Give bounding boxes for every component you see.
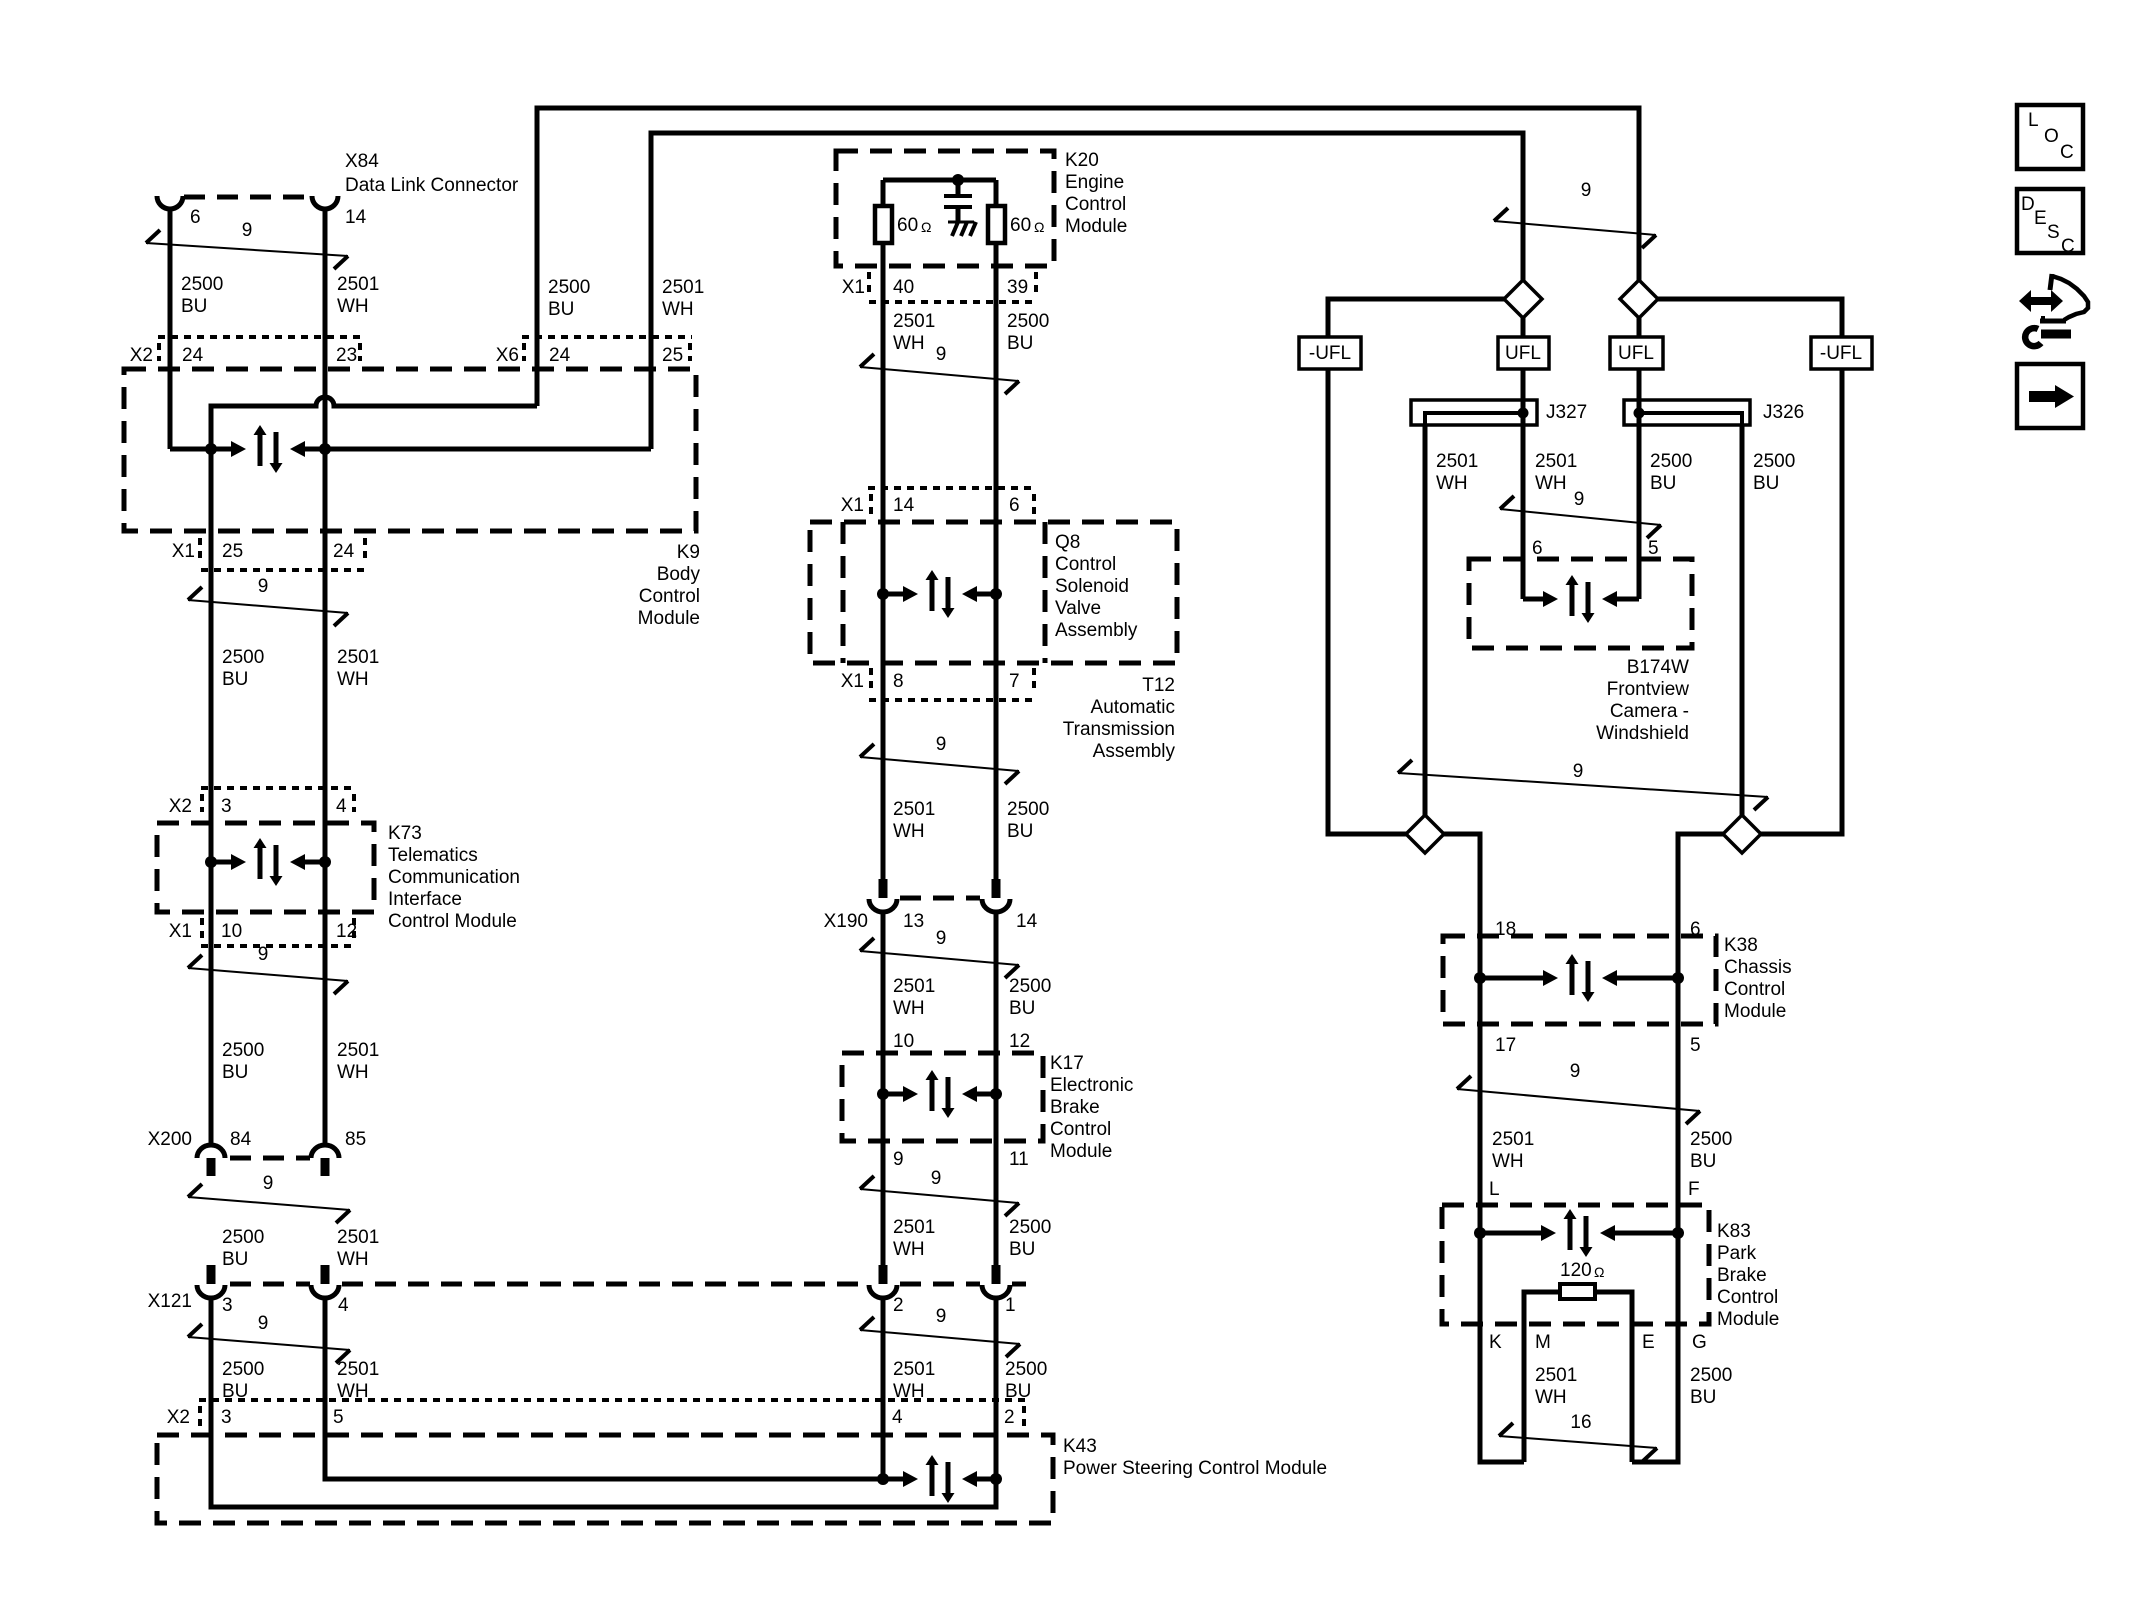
twisted pair 9 below X121 middle xyxy=(860,1317,874,1330)
svg-text:Body: Body xyxy=(657,564,701,585)
module Q8 inner partition right xyxy=(1043,522,1048,663)
terminal X121 pin 1 xyxy=(992,1265,1001,1284)
splice J326 xyxy=(1624,400,1750,425)
svg-text:WH: WH xyxy=(893,821,925,842)
svg-text:6: 6 xyxy=(1009,495,1020,516)
wire K43 2500 BU internal xyxy=(211,1298,996,1507)
wire 2500 BU K9 to K73 xyxy=(209,406,214,1147)
CAN node K43 xyxy=(883,1477,903,1482)
terminal X200 pin 84 xyxy=(197,1145,225,1158)
svg-text:2500: 2500 xyxy=(181,274,223,295)
connector X84 Data Link Connector xyxy=(184,195,311,200)
svg-text:X6: X6 xyxy=(496,345,519,366)
CAN node K73 xyxy=(211,860,231,865)
connector row X1 of K20 xyxy=(867,272,871,295)
svg-text:-UFL: -UFL xyxy=(1820,343,1862,364)
svg-text:Ω: Ω xyxy=(1034,219,1044,235)
svg-text:40: 40 xyxy=(893,277,914,298)
svg-text:K20: K20 xyxy=(1065,150,1099,171)
svg-text:2501: 2501 xyxy=(1535,1365,1577,1386)
terminal X121 pin 4 xyxy=(321,1265,330,1284)
svg-text:9: 9 xyxy=(1570,1061,1581,1082)
wire -UFL right down xyxy=(1761,369,1842,834)
svg-text:Electronic: Electronic xyxy=(1050,1075,1133,1096)
svg-text:UFL: UFL xyxy=(1618,343,1654,364)
twisted pair 9 below X121 left xyxy=(188,1324,202,1337)
svg-text:WH: WH xyxy=(893,998,925,1019)
svg-text:14: 14 xyxy=(893,495,915,516)
wire - 2501 WH top bus line xyxy=(651,133,1523,449)
svg-text:Valve: Valve xyxy=(1055,598,1101,619)
svg-text:BU: BU xyxy=(222,669,248,690)
svg-text:6: 6 xyxy=(1532,538,1543,559)
svg-text:9: 9 xyxy=(1581,180,1592,201)
svg-text:24: 24 xyxy=(333,541,355,562)
svg-text:14: 14 xyxy=(1016,911,1038,932)
svg-text:4: 4 xyxy=(336,796,347,817)
wire - 2500 BU top bus line xyxy=(537,108,1639,406)
svg-text:6: 6 xyxy=(190,207,201,228)
junction dot K9 2501 WH xyxy=(319,443,331,455)
svg-text:2500: 2500 xyxy=(1009,976,1051,997)
twisted pair 9 below K20 xyxy=(860,354,874,367)
terminal X121 pin 3 xyxy=(207,1265,216,1284)
svg-text:Control: Control xyxy=(1717,1287,1778,1308)
option box -UFL right xyxy=(1811,337,1872,369)
svg-text:X121: X121 xyxy=(148,1291,192,1312)
twisted pair 9 top right xyxy=(1494,208,1508,221)
svg-text:K38: K38 xyxy=(1724,935,1758,956)
svg-text:WH: WH xyxy=(662,299,694,320)
svg-text:2501: 2501 xyxy=(893,976,935,997)
wire 2501 WH UFL to camera xyxy=(1521,425,1526,599)
svg-text:BU: BU xyxy=(222,1062,248,1083)
splice diamond 2500 BU lower xyxy=(1723,815,1761,853)
svg-text:WH: WH xyxy=(1436,473,1468,494)
svg-text:X190: X190 xyxy=(824,911,868,932)
svg-text:X1: X1 xyxy=(172,541,195,562)
svg-text:G: G xyxy=(1692,1332,1707,1353)
svg-text:2501: 2501 xyxy=(337,1040,379,1061)
svg-text:Interface: Interface xyxy=(388,889,462,910)
svg-text:Power Steering Control Module: Power Steering Control Module xyxy=(1063,1458,1327,1479)
svg-text:2501: 2501 xyxy=(893,1359,935,1380)
svg-text:10: 10 xyxy=(221,921,242,942)
CAN node K38 xyxy=(1480,976,1543,981)
svg-text:9: 9 xyxy=(936,1306,947,1327)
twisted pair 9 below X200 xyxy=(188,1184,202,1197)
svg-text:J327: J327 xyxy=(1546,402,1587,423)
svg-text:WH: WH xyxy=(1535,473,1567,494)
svg-text:2500: 2500 xyxy=(222,1040,264,1061)
svg-text:8: 8 xyxy=(893,671,904,692)
svg-text:X1: X1 xyxy=(842,277,865,298)
connector X121 inline xyxy=(230,1282,310,1287)
svg-text:2501: 2501 xyxy=(893,799,935,820)
wire UFL right to J326 xyxy=(1637,369,1642,400)
wire 2500 BU X190 to K17 xyxy=(994,911,999,1267)
svg-text:3: 3 xyxy=(221,1407,232,1428)
wire 2500 BU from K20:39 xyxy=(994,243,999,880)
svg-text:Control: Control xyxy=(1065,194,1126,215)
svg-text:5: 5 xyxy=(1690,1035,1701,1056)
svg-text:BU: BU xyxy=(1007,333,1033,354)
svg-text:5: 5 xyxy=(1648,538,1659,559)
svg-text:120: 120 xyxy=(1560,1260,1592,1281)
svg-text:24: 24 xyxy=(549,345,571,366)
svg-text:-UFL: -UFL xyxy=(1309,343,1351,364)
wire to -UFL left xyxy=(1328,299,1504,337)
svg-text:BU: BU xyxy=(1009,1239,1035,1260)
svg-text:K73: K73 xyxy=(388,823,422,844)
svg-text:Data Link Connector: Data Link Connector xyxy=(345,175,519,196)
ground chassis symbol xyxy=(948,221,974,224)
svg-text:X1: X1 xyxy=(841,495,864,516)
wire K38:5 down to K83 xyxy=(1676,978,1681,1233)
resistor 60 ohm right xyxy=(988,206,1005,243)
svg-text:Control: Control xyxy=(1055,554,1116,575)
svg-text:2500: 2500 xyxy=(1009,1217,1051,1238)
svg-text:C: C xyxy=(2060,142,2074,163)
connector row X1 of T12 xyxy=(869,668,873,692)
wire K9 internal node feeds xyxy=(168,366,173,449)
svg-text:Engine: Engine xyxy=(1065,172,1124,193)
twisted pair 9 before lower splices xyxy=(1398,760,1412,773)
wire K20 internal top link xyxy=(883,178,996,183)
svg-text:2500: 2500 xyxy=(1690,1365,1732,1386)
wire camera pin 5 feed xyxy=(1617,597,1639,602)
svg-text:S: S xyxy=(2047,222,2060,243)
svg-text:WH: WH xyxy=(893,333,925,354)
twisted pair 9 below K17 xyxy=(860,1176,874,1189)
svg-text:9: 9 xyxy=(258,576,269,597)
wire 2501 WH from K20:40 xyxy=(881,243,886,880)
svg-text:WH: WH xyxy=(1535,1387,1567,1408)
svg-text:Brake: Brake xyxy=(1050,1097,1100,1118)
terminal cup X84 pin 14 xyxy=(312,196,338,209)
twisted pair 9 below K9 xyxy=(188,587,202,600)
svg-text:J326: J326 xyxy=(1763,402,1804,423)
wire to -UFL right xyxy=(1658,299,1842,337)
wire K9 internal 2500 BU upper link with hop over 2501 WH xyxy=(211,397,537,449)
terminal X121 pin 2 xyxy=(879,1265,888,1284)
wire diamond to K38:18 xyxy=(1444,834,1480,978)
svg-text:WH: WH xyxy=(337,296,369,317)
twisted pair 9 camera wires xyxy=(1500,496,1514,509)
svg-text:WH: WH xyxy=(893,1239,925,1260)
svg-text:Ω: Ω xyxy=(1594,1264,1604,1280)
legend box DESC xyxy=(2017,189,2083,253)
module B174W Frontview Camera Windshield xyxy=(1469,559,1692,648)
svg-text:9: 9 xyxy=(893,1149,904,1170)
svg-text:Ω: Ω xyxy=(921,219,931,235)
wire K38:17 down to K83 xyxy=(1478,978,1483,1233)
wire 2501 WH J327 branch down xyxy=(1423,425,1428,815)
svg-text:17: 17 xyxy=(1495,1035,1516,1056)
svg-text:C: C xyxy=(2061,236,2075,257)
svg-text:O: O xyxy=(2044,126,2059,147)
connector row X1 of K73 xyxy=(200,918,204,940)
module K17 Electronic Brake Control Module xyxy=(842,1053,1043,1141)
option box UFL right xyxy=(1610,337,1663,369)
svg-text:2501: 2501 xyxy=(1436,451,1478,472)
svg-text:X2: X2 xyxy=(130,345,153,366)
svg-text:Brake: Brake xyxy=(1717,1265,1767,1286)
svg-text:2501: 2501 xyxy=(893,311,935,332)
svg-text:K9: K9 xyxy=(677,542,700,563)
svg-text:BU: BU xyxy=(1007,821,1033,842)
wire UFL left to J327 xyxy=(1521,369,1526,400)
svg-text:Q8: Q8 xyxy=(1055,532,1080,553)
splice diamond 2501 WH lower xyxy=(1406,815,1444,853)
legend box arrow xyxy=(2017,364,2083,428)
svg-text:X1: X1 xyxy=(169,921,192,942)
svg-text:Solenoid: Solenoid xyxy=(1055,576,1129,597)
svg-text:BU: BU xyxy=(1650,473,1676,494)
svg-text:2501: 2501 xyxy=(1492,1129,1534,1150)
svg-text:4: 4 xyxy=(338,1295,349,1316)
svg-text:D: D xyxy=(2021,194,2035,215)
svg-text:60: 60 xyxy=(1010,215,1031,236)
svg-text:12: 12 xyxy=(336,921,357,942)
svg-text:X84: X84 xyxy=(345,151,379,172)
connector row X2 of K43 xyxy=(199,1398,1026,1402)
svg-text:BU: BU xyxy=(1009,998,1035,1019)
legend box LOC xyxy=(2017,105,2083,169)
svg-text:WH: WH xyxy=(337,1249,369,1270)
svg-text:9: 9 xyxy=(936,734,947,755)
svg-text:Camera -: Camera - xyxy=(1610,701,1689,722)
svg-text:BU: BU xyxy=(1690,1151,1716,1172)
svg-text:2: 2 xyxy=(1004,1407,1015,1428)
CAN node K17 xyxy=(883,1092,903,1097)
module T12 Automatic Transmission Assembly outer box xyxy=(810,522,1177,663)
wire camera pin 6 feed xyxy=(1523,597,1543,602)
svg-text:2500: 2500 xyxy=(1005,1359,1047,1380)
module K43 Power Steering Control Module xyxy=(157,1435,1053,1523)
connector X190 inline xyxy=(900,896,980,901)
svg-text:L: L xyxy=(1489,1179,1500,1200)
wire -UFL left down xyxy=(1328,369,1406,834)
svg-text:UFL: UFL xyxy=(1505,343,1541,364)
wires X121 to K43 left pair xyxy=(209,1298,214,1507)
svg-text:9: 9 xyxy=(936,344,947,365)
svg-text:Frontview: Frontview xyxy=(1607,679,1690,700)
svg-text:2500: 2500 xyxy=(222,1359,264,1380)
CAN node K83 xyxy=(1480,1231,1541,1236)
svg-text:Module: Module xyxy=(1065,216,1127,237)
svg-text:7: 7 xyxy=(1009,671,1020,692)
svg-text:9: 9 xyxy=(1573,761,1584,782)
svg-text:WH: WH xyxy=(337,1062,369,1083)
terminal X190 pin 14 xyxy=(992,879,1001,898)
svg-text:BU: BU xyxy=(222,1249,248,1270)
wire diamond to UFL left xyxy=(1521,318,1526,337)
CAN node K9 xyxy=(170,447,231,452)
svg-text:X2: X2 xyxy=(169,796,192,817)
wire K83 pin G loop xyxy=(1632,1233,1678,1462)
svg-text:BU: BU xyxy=(1690,1387,1716,1408)
svg-text:Control: Control xyxy=(1724,979,1785,1000)
svg-text:K17: K17 xyxy=(1050,1053,1084,1074)
svg-text:M: M xyxy=(1535,1332,1551,1353)
svg-text:16: 16 xyxy=(1570,1412,1591,1433)
svg-text:X1: X1 xyxy=(841,671,864,692)
svg-text:10: 10 xyxy=(893,1031,914,1052)
svg-text:2500: 2500 xyxy=(1753,451,1795,472)
svg-text:Transmission: Transmission xyxy=(1063,719,1175,740)
svg-text:Control: Control xyxy=(639,586,700,607)
svg-text:9: 9 xyxy=(936,928,947,949)
option box UFL left xyxy=(1498,337,1549,369)
svg-text:Assembly: Assembly xyxy=(1093,741,1176,762)
svg-text:9: 9 xyxy=(263,1173,274,1194)
svg-text:60: 60 xyxy=(897,215,918,236)
svg-text:9: 9 xyxy=(1574,489,1585,510)
module K38 Chassis Control Module xyxy=(1443,936,1716,1024)
connector row X2 of K73 xyxy=(201,786,356,790)
svg-text:L: L xyxy=(2028,110,2039,131)
svg-text:2501: 2501 xyxy=(337,647,379,668)
svg-text:23: 23 xyxy=(336,345,357,366)
module K83 Park Brake Control Module xyxy=(1442,1205,1709,1324)
wire X2:2 into K43 xyxy=(994,1298,999,1479)
terminal X200 pin 85 xyxy=(311,1145,339,1158)
module K20 Engine Control Module xyxy=(836,151,1054,266)
wire X2:4 into K43 xyxy=(881,1298,886,1479)
wire resistor left lead to pin M xyxy=(1524,1292,1560,1462)
wire 2500 BU J326 branch down xyxy=(1740,425,1745,815)
svg-text:2501: 2501 xyxy=(337,1359,379,1380)
connector X200 inline xyxy=(230,1156,310,1161)
svg-text:Module: Module xyxy=(1724,1001,1786,1022)
svg-text:9: 9 xyxy=(931,1168,942,1189)
resistor 60 ohm left xyxy=(875,206,892,243)
svg-text:2500: 2500 xyxy=(1007,799,1049,820)
svg-text:2501: 2501 xyxy=(893,1217,935,1238)
connector row X1 of K9 xyxy=(198,538,202,561)
svg-text:3: 3 xyxy=(221,796,232,817)
svg-text:5: 5 xyxy=(333,1407,344,1428)
svg-text:Assembly: Assembly xyxy=(1055,620,1138,641)
connector row X1 of Q8 xyxy=(868,486,1037,490)
splice diamond 2500 BU top xyxy=(1620,280,1658,318)
wire resistor right lead to pin E xyxy=(1595,1292,1632,1462)
legend icon data link diagnostics xyxy=(2019,290,2063,312)
svg-text:4: 4 xyxy=(892,1407,903,1428)
svg-text:2500: 2500 xyxy=(1650,451,1692,472)
module K9 Body Control Module xyxy=(124,369,696,531)
svg-text:Chassis: Chassis xyxy=(1724,957,1792,978)
svg-text:84: 84 xyxy=(230,1129,252,1150)
svg-text:WH: WH xyxy=(337,669,369,690)
svg-text:Module: Module xyxy=(638,608,700,629)
svg-text:3: 3 xyxy=(222,1295,233,1316)
wire 2500 BU UFL to camera xyxy=(1637,425,1642,599)
svg-text:2500: 2500 xyxy=(222,647,264,668)
wire K43 2501 WH internal xyxy=(325,1298,883,1479)
svg-text:2500: 2500 xyxy=(1007,311,1049,332)
svg-text:Control: Control xyxy=(1050,1119,1111,1140)
svg-text:WH: WH xyxy=(337,1381,369,1402)
svg-text:WH: WH xyxy=(1492,1151,1524,1172)
connector row X6 of K9 xyxy=(522,335,692,339)
svg-text:Module: Module xyxy=(1050,1141,1112,1162)
svg-text:11: 11 xyxy=(1009,1149,1029,1170)
splice diamond 2501 WH top xyxy=(1504,280,1542,318)
svg-text:2501: 2501 xyxy=(337,274,379,295)
svg-text:Windshield: Windshield xyxy=(1596,723,1689,744)
connector row X2 of K9 xyxy=(158,335,362,339)
svg-text:Park: Park xyxy=(1717,1243,1757,1264)
svg-text:25: 25 xyxy=(662,345,683,366)
splice J327 xyxy=(1411,400,1537,425)
svg-text:Automatic: Automatic xyxy=(1091,697,1175,718)
twisted pair 9 below K38 xyxy=(1457,1076,1471,1089)
svg-text:Telematics: Telematics xyxy=(388,845,478,866)
svg-text:25: 25 xyxy=(222,541,243,562)
svg-text:39: 39 xyxy=(1007,277,1028,298)
twisted pair 9 below K73 xyxy=(188,955,202,968)
twisted pair 9 below X190 xyxy=(860,938,874,951)
twisted pair 9 below T12 xyxy=(860,744,874,757)
CAN node Q8 xyxy=(883,592,903,597)
module K73 Telematics Communication Interface Control Module xyxy=(157,823,374,912)
twisted pair 9 below X84 xyxy=(146,230,160,243)
svg-text:F: F xyxy=(1688,1179,1700,1200)
wire diamond to UFL right xyxy=(1637,318,1642,337)
svg-text:2501: 2501 xyxy=(337,1227,379,1248)
module Q8 inner partition left xyxy=(841,522,846,663)
svg-text:Module: Module xyxy=(1717,1309,1779,1330)
svg-text:9: 9 xyxy=(258,944,269,965)
svg-text:B174W: B174W xyxy=(1627,657,1689,678)
svg-text:2500: 2500 xyxy=(1690,1129,1732,1150)
twisted pair 16 K83 loops xyxy=(1499,1423,1513,1436)
CAN node B174W xyxy=(1523,597,1543,602)
capacitor K20 EMI filter xyxy=(956,180,961,196)
terminal X190 pin 13 xyxy=(879,879,888,898)
svg-text:K43: K43 xyxy=(1063,1436,1097,1457)
svg-text:2: 2 xyxy=(893,1295,904,1316)
svg-text:K83: K83 xyxy=(1717,1221,1751,1242)
svg-text:BU: BU xyxy=(181,296,207,317)
option box -UFL left xyxy=(1299,337,1361,369)
wire K83 pin K loop xyxy=(1480,1233,1524,1462)
svg-text:K: K xyxy=(1489,1332,1502,1353)
svg-text:1: 1 xyxy=(1005,1295,1016,1316)
svg-text:E: E xyxy=(1642,1332,1655,1353)
svg-text:24: 24 xyxy=(182,345,204,366)
svg-text:Control Module: Control Module xyxy=(388,911,517,932)
svg-text:14: 14 xyxy=(345,207,367,228)
junction dot K20 xyxy=(952,174,964,186)
svg-text:BU: BU xyxy=(1753,473,1779,494)
svg-text:2501: 2501 xyxy=(662,277,704,298)
wire 2501 WH from X84:14 xyxy=(323,209,328,1147)
wire diamond to K38:6 xyxy=(1678,834,1723,978)
svg-text:E: E xyxy=(2034,208,2047,229)
svg-text:2500: 2500 xyxy=(548,277,590,298)
svg-text:85: 85 xyxy=(345,1129,366,1150)
svg-text:2500: 2500 xyxy=(222,1227,264,1248)
svg-text:9: 9 xyxy=(258,1313,269,1334)
svg-text:X2: X2 xyxy=(167,1407,190,1428)
svg-text:X200: X200 xyxy=(148,1129,192,1150)
wire 2500 BU from X84:6 xyxy=(168,209,173,449)
junction dot K9 2500 BU xyxy=(205,443,217,455)
wire 2501 WH X190 to K17 xyxy=(881,911,886,1267)
